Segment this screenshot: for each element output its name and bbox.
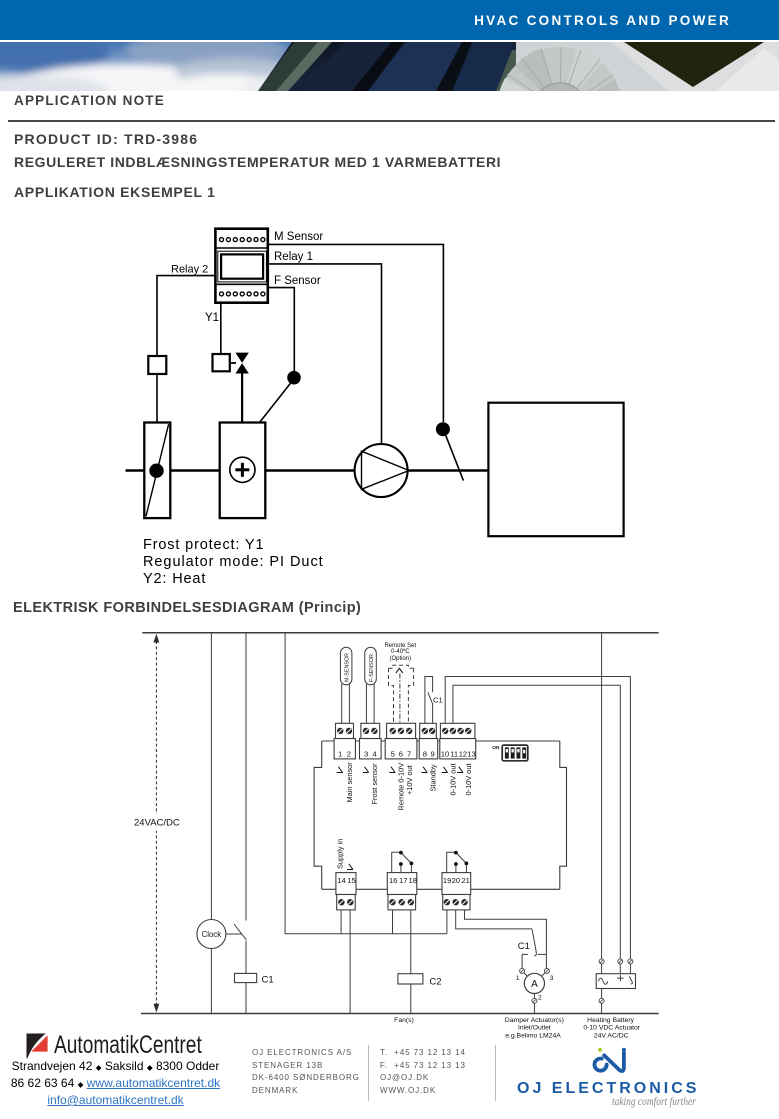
common marks and rotated labels bbox=[337, 767, 463, 773]
svg-text:F-SENSOR: F-SENSOR bbox=[369, 654, 375, 682]
screw block 16-18 bbox=[388, 895, 416, 910]
svg-text:Main sensor: Main sensor bbox=[345, 762, 354, 803]
duct line bbox=[126, 469, 489, 472]
svg-text:1: 1 bbox=[516, 975, 520, 982]
common mark above 15 bbox=[347, 864, 353, 870]
heater E1 bbox=[220, 423, 266, 519]
footer divider 1 bbox=[368, 1045, 369, 1101]
wire Relay 1 bbox=[268, 264, 382, 445]
screw block 8-9 bbox=[420, 723, 437, 738]
svg-text:1: 1 bbox=[338, 750, 342, 759]
remote set potentiometer (option) bbox=[384, 643, 416, 723]
wire 14 to bus bbox=[340, 910, 342, 934]
supply loop wire to terminal bus bbox=[285, 633, 447, 934]
main controller box outline bbox=[314, 741, 566, 889]
switch branch wire bbox=[245, 633, 247, 921]
svg-text:C1: C1 bbox=[518, 941, 530, 952]
AutomatikCentret logo icon bbox=[26, 1033, 49, 1060]
contactor coil C1 bbox=[235, 973, 257, 982]
right gray area bbox=[516, 42, 779, 91]
terminal group 10-13 numbered box bbox=[440, 739, 476, 759]
svg-text:Damper Actuator(s): Damper Actuator(s) bbox=[505, 1017, 564, 1024]
svg-text:17: 17 bbox=[399, 876, 407, 885]
svg-text:12: 12 bbox=[459, 750, 467, 759]
screw block 10-13 bbox=[440, 723, 475, 738]
wire clock to rail bbox=[210, 949, 212, 1014]
wire C1 to rail bbox=[245, 983, 247, 1014]
svg-text:19: 19 bbox=[443, 876, 451, 885]
valve V1 (bowtie) bbox=[230, 353, 249, 374]
wire 16 to bus bbox=[392, 910, 394, 934]
svg-text:5: 5 bbox=[391, 750, 395, 759]
svg-text:e.g.Belimo LM24A: e.g.Belimo LM24A bbox=[505, 1032, 561, 1039]
svg-text:Remote Set: Remote Set bbox=[384, 643, 416, 649]
svg-text:3: 3 bbox=[364, 750, 368, 759]
OJ ELECTRONICS wordmark bbox=[517, 1080, 699, 1098]
svg-text:14: 14 bbox=[337, 876, 345, 885]
svg-text:Y2: Heat: Y2: Heat bbox=[143, 571, 206, 587]
svg-text:21: 21 bbox=[461, 876, 469, 885]
svg-text:Frost sensor: Frost sensor bbox=[370, 763, 379, 805]
screw block 3-4 bbox=[361, 723, 380, 738]
heating battery box bbox=[596, 974, 635, 1014]
electrical diagram bbox=[0, 625, 779, 1045]
wire rail to heating battery bbox=[601, 633, 603, 959]
screw block 5-6-7 bbox=[387, 723, 416, 738]
svg-text:C1: C1 bbox=[262, 975, 274, 986]
svg-text:Y1: Y1 bbox=[205, 312, 219, 324]
svg-text:C1: C1 bbox=[433, 695, 443, 704]
svg-text:2: 2 bbox=[538, 995, 542, 1002]
svg-text:+10V out: +10V out bbox=[405, 765, 414, 795]
svg-text:6: 6 bbox=[399, 750, 403, 759]
svg-text:11: 11 bbox=[450, 750, 458, 759]
F sensor probe bbox=[260, 371, 301, 423]
svg-text:20: 20 bbox=[452, 876, 460, 885]
svg-text:0-10 VDC Actuator: 0-10 VDC Actuator bbox=[583, 1025, 640, 1032]
terminal group 5-6-7 numbered box bbox=[385, 739, 417, 759]
svg-text:18: 18 bbox=[409, 876, 417, 885]
terminal group 19-21 numbered box bbox=[442, 873, 471, 895]
controller terminal dots top bbox=[220, 238, 265, 242]
clock bbox=[197, 920, 226, 949]
C1 auxiliary contact at terminals 8-9 bbox=[425, 677, 443, 724]
wire valve to heater bbox=[241, 374, 243, 423]
svg-text:16: 16 bbox=[389, 876, 397, 885]
wire terminal 10 to heating battery bbox=[445, 677, 630, 960]
wire from square to filter bbox=[156, 374, 158, 423]
wire 21 to damper actuator bbox=[465, 910, 547, 968]
top supply rail bbox=[142, 632, 658, 634]
wire 15 to rail bbox=[349, 910, 351, 1014]
svg-text:Relay 1: Relay 1 bbox=[274, 251, 313, 263]
svg-text:2: 2 bbox=[347, 750, 351, 759]
controller terminal dots bottom bbox=[220, 292, 265, 296]
OJ phone column bbox=[380, 1047, 466, 1097]
svg-text:9: 9 bbox=[431, 750, 435, 759]
APPLICATION NOTE bbox=[14, 93, 165, 108]
C1 contact blade bbox=[532, 929, 536, 956]
wire 18 to contactor C2 bbox=[410, 910, 412, 974]
svg-text:M-SENSOR: M-SENSOR bbox=[345, 653, 351, 682]
vent fan bbox=[497, 47, 623, 173]
wire to C1 coil bbox=[245, 941, 247, 974]
svg-text:7: 7 bbox=[407, 750, 411, 759]
controller U1 (TRD-3986) bbox=[215, 229, 267, 303]
svg-text:Relay 2: Relay 2 bbox=[171, 263, 208, 275]
svg-text:Regulator mode: PI Duct: Regulator mode: PI Duct bbox=[143, 554, 324, 570]
switch blade bbox=[234, 924, 246, 940]
screw block 19-21 bbox=[443, 895, 470, 910]
svg-text:(Option): (Option) bbox=[389, 656, 411, 662]
svg-text:8: 8 bbox=[423, 750, 427, 759]
wire terminal 11 to heating battery bbox=[453, 685, 620, 959]
AutomatikCentret wordmark bbox=[54, 1031, 202, 1060]
M sensor probe bbox=[436, 422, 464, 480]
svg-text:C2: C2 bbox=[429, 977, 441, 988]
terminal group 1-2 numbered box bbox=[334, 739, 355, 759]
F sensor probe bbox=[365, 647, 377, 723]
photo strip bbox=[0, 42, 779, 91]
white wall + dark V roof bbox=[612, 42, 779, 91]
wire M sensor bbox=[268, 244, 443, 422]
svg-text:3: 3 bbox=[550, 975, 554, 982]
svg-text:4: 4 bbox=[372, 750, 376, 759]
relay contact above 19-21 bbox=[447, 852, 467, 872]
clock branch wire bbox=[210, 633, 212, 920]
DIP switch S1 bbox=[492, 745, 528, 761]
24VAC/DC dimension arrow bbox=[155, 641, 157, 1006]
tagline bbox=[612, 1096, 696, 1108]
wire 20 to C1 contact bbox=[456, 910, 532, 929]
svg-text:ON: ON bbox=[492, 745, 500, 751]
application schematic bbox=[0, 220, 779, 600]
contactor coil C2 bbox=[398, 974, 423, 984]
wire Y1 bbox=[220, 303, 222, 353]
OJ logo glyph bbox=[585, 1045, 635, 1075]
svg-text:15: 15 bbox=[347, 876, 355, 885]
damper actuator A1 bbox=[516, 968, 554, 1013]
wire 19 to bus bbox=[446, 910, 448, 934]
screw block 1-2 bbox=[336, 723, 354, 738]
svg-text:24VAC/DC: 24VAC/DC bbox=[134, 818, 180, 829]
terminal group 3-4 numbered box bbox=[360, 739, 382, 759]
svg-text:Frost protect: Y1: Frost protect: Y1 bbox=[143, 537, 264, 553]
fan M1 bbox=[355, 444, 409, 497]
screw block 14-15 bbox=[337, 895, 356, 910]
svg-text:0-40ºC: 0-40ºC bbox=[391, 648, 410, 655]
terminal group 16-18 numbered box bbox=[387, 873, 417, 895]
heating battery terminals bbox=[599, 959, 633, 974]
terminal group 14-15 numbered box bbox=[336, 873, 356, 895]
terminal group 8-9 numbered box bbox=[419, 739, 438, 759]
C1 contact fixed line bbox=[522, 954, 546, 968]
wire clock to switch bbox=[226, 933, 242, 935]
ELEKTRISK heading bbox=[13, 600, 361, 616]
room box bbox=[488, 403, 623, 537]
svg-text:Supply in: Supply in bbox=[335, 839, 344, 869]
header blue band bbox=[0, 0, 779, 40]
wire Relay 2 bbox=[157, 276, 215, 356]
building bbox=[258, 42, 522, 91]
footer divider 2 bbox=[495, 1045, 496, 1101]
M sensor probe bbox=[340, 647, 352, 723]
svg-text:Standby: Standby bbox=[429, 764, 438, 791]
actuator square Y1 bbox=[213, 354, 230, 371]
actuator square on relay2 branch bbox=[148, 356, 166, 374]
filter/damper F1 bbox=[144, 423, 170, 519]
bottom supply rail bbox=[141, 1013, 659, 1015]
svg-text:0-10V out: 0-10V out bbox=[449, 763, 458, 795]
rule under application note bbox=[8, 120, 775, 122]
svg-text:Inlet/Outlet: Inlet/Outlet bbox=[518, 1025, 551, 1032]
OJ address column bbox=[252, 1047, 360, 1097]
svg-text:Heating Battery: Heating Battery bbox=[587, 1017, 634, 1024]
svg-text:Clock: Clock bbox=[202, 930, 222, 939]
relay contact above 16-18 bbox=[392, 852, 412, 872]
svg-text:24V AC/DC: 24V AC/DC bbox=[594, 1032, 629, 1039]
svg-text:10: 10 bbox=[441, 750, 449, 759]
svg-text:0-10V out: 0-10V out bbox=[464, 763, 473, 795]
svg-text:13: 13 bbox=[467, 750, 475, 759]
svg-text:F Sensor: F Sensor bbox=[274, 275, 321, 287]
svg-text:M Sensor: M Sensor bbox=[274, 231, 323, 243]
svg-text:A: A bbox=[531, 979, 538, 990]
svg-text:Fan(s): Fan(s) bbox=[394, 1017, 414, 1024]
wire F sensor bbox=[268, 288, 294, 372]
wire C2 to rail bbox=[410, 984, 412, 1014]
